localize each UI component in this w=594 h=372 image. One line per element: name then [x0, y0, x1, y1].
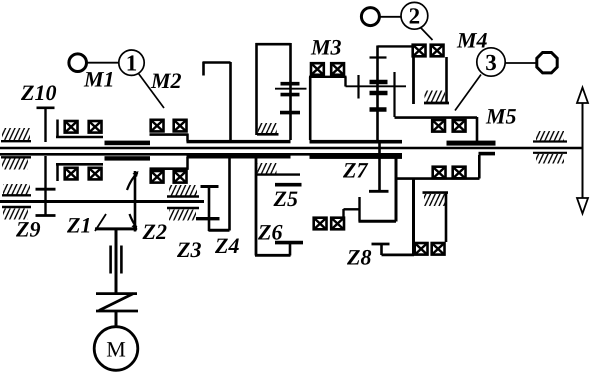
gear block upper C-rect top [256, 43, 291, 46]
belt zigzag diagonal [99, 294, 134, 311]
long shelf upper B [310, 140, 403, 144]
gear column bar 1 [370, 80, 388, 84]
gear block lower C-rect bottom [255, 254, 291, 257]
svg-text:Z6: Z6 [257, 220, 282, 245]
svg-text:2: 2 [409, 4, 421, 29]
gear Z3 stem [208, 186, 211, 232]
bearing right lower (spindle end) [533, 153, 567, 164]
clutch M3 base line [309, 76, 347, 78]
bearing countershaft right upper [167, 185, 199, 197]
gear mesh line M3 [346, 85, 407, 87]
gear Z10 cap [37, 107, 55, 110]
clutch M3 box 2 [331, 63, 344, 75]
gear Z4 stem [228, 156, 231, 231]
gear block upper C-rect left vertical [255, 43, 258, 135]
clutch M2 box 3 [151, 171, 164, 183]
clutch M3 step wall [344, 77, 346, 87]
bearing left lower (countershaft) [2, 207, 31, 220]
step vertical to lower clutch [342, 209, 344, 217]
bevel arrow upper [127, 173, 138, 191]
gear stem small [357, 75, 359, 99]
leader from node 2 [421, 28, 433, 41]
gear Z7 cap [369, 190, 389, 193]
clutch M5 box upper 2 [453, 120, 466, 132]
clutch M5 right wall [478, 155, 481, 179]
bevel gear Z2 face bar [95, 227, 137, 230]
clutch M1 wall lower [56, 164, 59, 181]
clutch M5 box upper 1 [432, 120, 445, 132]
belt zigzag top bar [96, 292, 137, 295]
leader from node 3 [455, 75, 481, 111]
gear Z3 hub bar [196, 217, 220, 220]
clutch M4 box 1 [413, 45, 426, 57]
gear block lower C-rect right vertical [289, 242, 292, 256]
small circle 1 [69, 54, 87, 72]
gear mesh bar 3 [280, 111, 300, 115]
lower right hatch [424, 194, 445, 206]
sleeve bar lower [105, 156, 151, 160]
coupling right flange [120, 246, 123, 274]
clutch M1 shelf upper [56, 136, 103, 139]
step horizontal to lower clutch [344, 208, 360, 210]
gear Z9 top cap [36, 188, 56, 191]
svg-text:M1: M1 [83, 67, 115, 92]
small circle 2 [361, 8, 379, 26]
node circle 2 [401, 2, 428, 29]
clutch M3 left wall [309, 77, 312, 140]
clutch M5 box 2 [453, 167, 466, 179]
clutch M2 box 1 [151, 120, 164, 132]
gear stem mid [393, 72, 395, 117]
svg-text:1: 1 [126, 51, 138, 76]
countershaft [0, 200, 204, 203]
clutch M2 box 4 [174, 171, 187, 183]
gear Z3 top cap [201, 185, 219, 188]
arrow head down [577, 198, 588, 214]
gear mesh bar 2 [281, 93, 300, 97]
gear column tick [370, 56, 387, 58]
gear column bar 2 [370, 91, 388, 95]
motor M circle [94, 327, 138, 371]
bevel gear Z1 disc [134, 171, 137, 232]
gear Z8 link horizontal [359, 220, 397, 223]
clutch M5 base line [396, 177, 480, 180]
long shelf lower B [310, 155, 403, 159]
clutch M2 box 2 [174, 120, 187, 132]
motor shaft lower segment [115, 311, 118, 327]
gear block lower C-rect left vertical [255, 155, 258, 256]
clutch M1 shelf lower [56, 163, 103, 166]
clutch M1 box 1 [65, 121, 78, 133]
clutch M3 box 1 [311, 63, 324, 75]
bearing left lower (spindle) [1, 157, 31, 169]
gear mesh line [275, 88, 307, 90]
link line 1 [87, 62, 120, 64]
frame vertical to sleeve [476, 117, 479, 141]
svg-text:M2: M2 [150, 68, 182, 93]
leader Z1 slash [95, 214, 106, 231]
gear Z6 bar [275, 241, 303, 245]
bevel arrow lower [130, 214, 137, 228]
clutch M2 shelf upper [150, 133, 189, 136]
bearing left upper (countershaft) [2, 184, 31, 195]
gear Z10 stem lower [44, 156, 46, 189]
clutch M4 right vertical [445, 57, 448, 103]
node circle 3 [477, 48, 505, 76]
shaft spindle bottom line [0, 153, 402, 156]
gear Z10 stem [44, 107, 46, 142]
lower right hatch top line [423, 191, 449, 194]
motor shaft upper segment [115, 228, 118, 293]
clutch M1 box 3 [65, 168, 78, 180]
svg-text:Z1: Z1 [66, 213, 91, 238]
gear Z5 bar [275, 183, 302, 187]
sleeve bar right lower [479, 152, 496, 156]
lower right box 1 [415, 243, 428, 255]
belt zigzag bottom bar [96, 310, 138, 313]
svg-text:Z8: Z8 [346, 245, 371, 270]
gear on M2 sleeve cap [203, 61, 231, 64]
gear column stem [376, 46, 379, 141]
bearing right upper (spindle end) [533, 131, 567, 142]
gear mesh bar 1 [281, 82, 300, 86]
svg-text:Z5: Z5 [273, 186, 298, 211]
clutch M4 box 2 [431, 45, 444, 57]
bearing countershaft right lower [167, 208, 199, 221]
long shelf upper A [187, 140, 291, 143]
gear Z8 bottom link [382, 253, 415, 256]
lower clutch box 1 [314, 218, 327, 230]
sleeve bar upper [105, 141, 151, 146]
gear Z9 stem [44, 189, 46, 216]
link line 3 [506, 62, 537, 64]
gear column bar 3 [370, 107, 387, 111]
gear Z9 bottom cap [36, 214, 56, 217]
gear block lower hatch [256, 163, 300, 175]
gear Z8 stem [380, 244, 383, 255]
svg-text:M5: M5 [485, 104, 517, 129]
clutch M1 box 4 [89, 168, 102, 180]
clutch M2 shelf lower [150, 167, 189, 170]
svg-text:M3: M3 [310, 35, 342, 60]
gear column cap line to M4 [378, 45, 413, 47]
clutch M2 wall upper [186, 134, 189, 142]
clutch M2 wall lower [186, 157, 189, 170]
clutch M5 box 1 [433, 167, 446, 179]
gear on M2 sleeve stem [229, 62, 232, 141]
small octagon 3 [537, 53, 557, 73]
leader from node 1 [139, 74, 165, 109]
gear block upper hatch [257, 123, 279, 134]
svg-text:M4: M4 [456, 28, 488, 53]
hanging vertical left [395, 156, 398, 222]
svg-text:Z4: Z4 [214, 233, 239, 258]
sleeve bar right upper [447, 141, 496, 146]
clutch M4 left vertical [412, 46, 415, 104]
arrow head up [577, 88, 588, 104]
svg-text:M: M [106, 337, 126, 362]
gear block upper C-rect right vertical [289, 43, 292, 140]
coupling left flange [109, 246, 112, 274]
svg-text:Z2: Z2 [142, 219, 167, 244]
gear Z8 link vertical [358, 197, 360, 222]
bearing left upper (spindle) [1, 128, 31, 141]
lower right box 2 [432, 243, 445, 255]
svg-text:Z3: Z3 [176, 237, 201, 262]
long shelf lower A [187, 155, 291, 158]
svg-text:3: 3 [485, 50, 497, 75]
clutch M1 box 2 [89, 121, 102, 133]
node circle 1 [119, 50, 144, 75]
clutch M1 wall upper [56, 120, 59, 138]
frame horizontal upper right [395, 116, 478, 119]
hanging vertical right [412, 179, 415, 256]
lower clutch box 2 [331, 218, 344, 230]
gear on M2 sleeve cap tick [202, 62, 205, 76]
link line 2 [380, 16, 401, 18]
lower right vertical [445, 193, 448, 243]
svg-text:Z9: Z9 [15, 217, 40, 242]
svg-text:Z10: Z10 [20, 80, 56, 105]
gear Z8 cap [372, 243, 390, 246]
gear Z7 stem [378, 143, 381, 191]
gear Z4 bottom cap [209, 229, 230, 232]
shaft spindle top line [0, 147, 583, 149]
svg-text:Z7: Z7 [342, 158, 368, 183]
double arrow vertical line [582, 99, 584, 202]
clutch M4 hatch [424, 91, 449, 104]
